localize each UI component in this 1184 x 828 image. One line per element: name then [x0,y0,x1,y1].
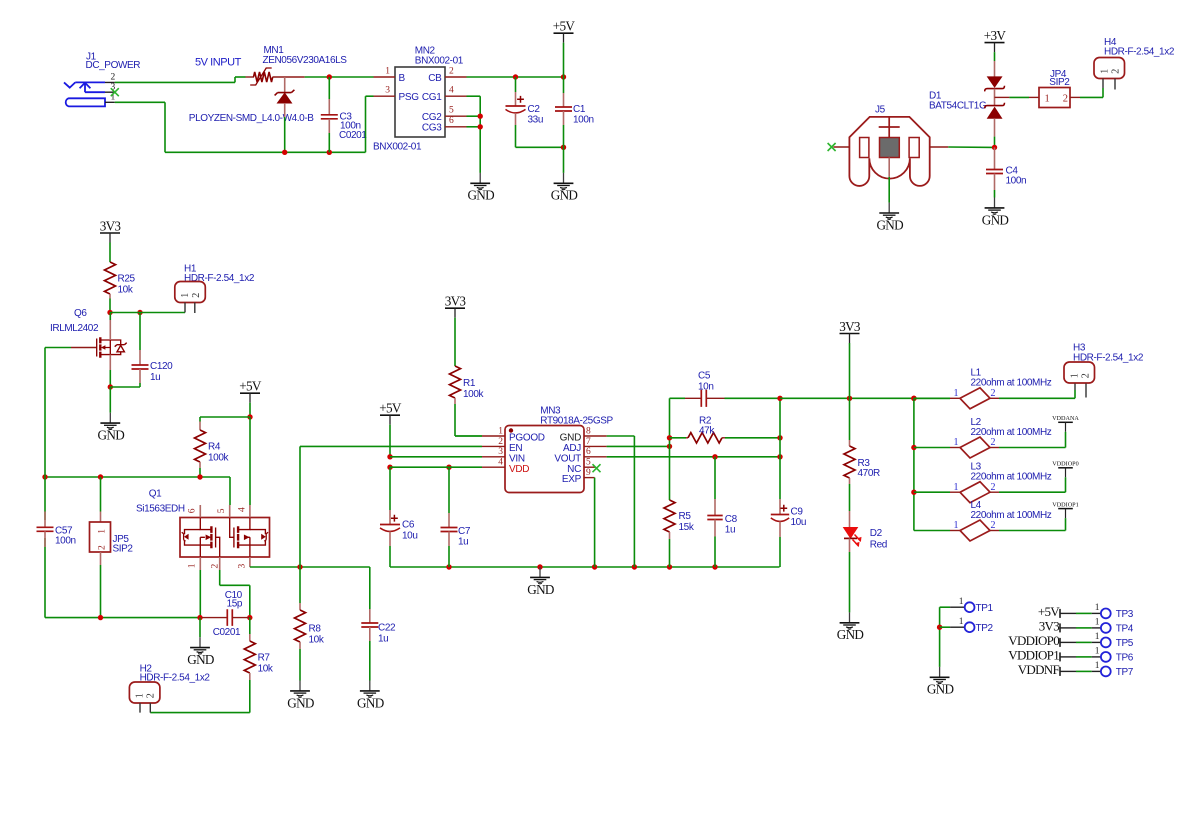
svg-text:2: 2 [991,482,996,493]
svg-text:9: 9 [586,468,591,478]
svg-text:VDD: VDD [509,464,529,475]
svg-text:4: 4 [498,458,503,468]
svg-text:1: 1 [135,693,146,698]
svg-text:GND: GND [467,188,494,203]
svg-text:+5V: +5V [1038,604,1060,619]
svg-text:33u: 33u [528,114,544,125]
svg-text:6: 6 [188,508,198,513]
svg-text:1: 1 [180,293,191,298]
svg-text:TP3: TP3 [1116,609,1134,620]
svg-text:10k: 10k [118,285,134,296]
svg-text:1: 1 [188,563,198,568]
svg-text:100k: 100k [208,452,229,463]
svg-text:2: 2 [1110,69,1121,74]
svg-text:TP1: TP1 [976,603,994,614]
svg-text:+5V: +5V [379,401,402,416]
svg-text:1: 1 [954,520,959,531]
svg-text:3: 3 [237,564,247,569]
svg-text:GND: GND [98,428,125,443]
svg-text:5: 5 [449,106,454,116]
svg-text:10k: 10k [309,635,325,646]
svg-text:GND: GND [527,582,554,597]
svg-text:PSG: PSG [399,92,420,103]
svg-text:5V INPUT: 5V INPUT [195,57,242,69]
svg-text:GND: GND [982,212,1009,227]
svg-text:R8: R8 [309,624,322,635]
svg-text:100n: 100n [1006,175,1027,186]
svg-text:2: 2 [449,66,454,76]
svg-text:Q1: Q1 [149,488,162,499]
svg-text:PGOOD: PGOOD [509,433,545,444]
svg-text:1: 1 [385,66,390,76]
svg-text:1: 1 [1095,618,1100,628]
svg-text:SIP2: SIP2 [113,543,134,554]
svg-text:CB: CB [428,73,442,84]
svg-text:BNX002-01: BNX002-01 [415,55,464,66]
svg-text:VDDIOP1: VDDIOP1 [1008,648,1059,663]
svg-text:TP6: TP6 [1116,653,1134,664]
svg-text:2: 2 [991,437,996,448]
svg-text:2: 2 [1063,93,1068,104]
svg-text:3V3: 3V3 [839,319,861,334]
svg-text:GND: GND [876,217,903,232]
svg-text:220ohm at 100MHz: 220ohm at 100MHz [971,427,1052,438]
svg-text:3V3: 3V3 [1039,619,1059,634]
svg-text:C5: C5 [698,370,711,381]
svg-text:1: 1 [954,388,959,399]
svg-text:CG2: CG2 [422,112,442,123]
svg-text:220ohm at 100MHz: 220ohm at 100MHz [971,510,1052,521]
svg-text:HDR-F-2.54_1x2: HDR-F-2.54_1x2 [1104,47,1175,58]
svg-text:2: 2 [991,520,996,531]
svg-text:1: 1 [97,529,107,534]
svg-text:TP5: TP5 [1116,638,1134,649]
svg-text:D2: D2 [870,528,883,539]
svg-text:1: 1 [954,482,959,493]
svg-text:1: 1 [498,426,503,436]
svg-text:1u: 1u [458,536,468,547]
svg-text:CG1: CG1 [422,92,442,103]
svg-text:C6: C6 [402,520,415,531]
svg-text:100n: 100n [55,536,76,547]
svg-text:100k: 100k [463,389,484,400]
svg-text:+5V: +5V [553,19,576,34]
svg-text:1: 1 [1095,647,1100,657]
svg-text:VDDANA: VDDANA [1052,415,1079,422]
svg-text:2: 2 [991,388,996,399]
svg-text:8: 8 [586,426,591,436]
svg-text:3V3: 3V3 [100,218,122,233]
svg-text:4: 4 [237,507,247,512]
svg-text:TP4: TP4 [1116,624,1134,635]
svg-text:1: 1 [954,437,959,448]
svg-text:SIP2: SIP2 [1049,77,1070,88]
svg-text:TP7: TP7 [1116,667,1134,678]
svg-text:3V3: 3V3 [445,294,467,309]
svg-text:220ohm at 100MHz: 220ohm at 100MHz [971,472,1052,483]
svg-text:BAT54CLT1G: BAT54CLT1G [929,101,987,112]
svg-text:2: 2 [498,437,503,447]
svg-text:R1: R1 [463,378,476,389]
svg-text:10n: 10n [698,381,714,392]
svg-text:470R: 470R [858,468,880,479]
svg-text:IRLML2402: IRLML2402 [50,323,99,334]
svg-text:5: 5 [586,458,591,468]
svg-text:15p: 15p [227,598,243,609]
svg-text:C7: C7 [458,526,471,537]
svg-text:3: 3 [385,86,390,96]
svg-text:J5: J5 [875,105,886,116]
svg-text:47k: 47k [699,426,715,437]
svg-text:6: 6 [449,116,454,126]
svg-text:1: 1 [1095,661,1100,671]
svg-text:2: 2 [111,73,116,83]
svg-text:GND: GND [560,433,581,444]
svg-text:VDDNF: VDDNF [1018,662,1060,677]
svg-text:R7: R7 [258,653,271,664]
svg-text:1u: 1u [725,525,735,536]
svg-text:R4: R4 [208,441,221,452]
svg-text:1u: 1u [378,634,388,645]
svg-text:C9: C9 [791,506,804,517]
svg-text:C0201: C0201 [213,627,241,638]
svg-text:GND: GND [187,652,214,667]
svg-text:4: 4 [449,86,454,96]
svg-text:1: 1 [1099,69,1110,74]
svg-text:GND: GND [287,695,314,710]
svg-text:Q6: Q6 [74,308,87,319]
svg-text:1: 1 [1045,93,1050,104]
svg-text:EN: EN [509,443,522,454]
svg-text:C120: C120 [150,361,173,372]
svg-text:GND: GND [357,695,384,710]
svg-text:VDDIOP1: VDDIOP1 [1052,501,1078,508]
svg-text:7: 7 [586,437,591,447]
svg-text:2: 2 [191,293,202,298]
svg-text:R5: R5 [679,511,692,522]
svg-text:10u: 10u [791,517,807,528]
svg-text:VDDIOP0: VDDIOP0 [1052,461,1078,468]
svg-text:BNX002-01: BNX002-01 [373,142,422,153]
svg-text:1: 1 [959,617,964,627]
svg-text:C8: C8 [725,514,738,525]
svg-text:1: 1 [1069,373,1080,378]
svg-text:+5V: +5V [239,379,262,394]
svg-text:2: 2 [97,545,107,550]
svg-text:GND: GND [837,627,864,642]
svg-text:VOUT: VOUT [554,453,581,464]
svg-text:6: 6 [586,447,591,457]
svg-text:CG3: CG3 [422,123,442,134]
svg-text:VIN: VIN [509,453,525,464]
svg-text:220ohm at 100MHz: 220ohm at 100MHz [971,378,1052,389]
svg-text:5: 5 [217,508,227,513]
svg-text:1: 1 [959,597,964,607]
svg-text:EXP: EXP [562,474,582,485]
svg-text:1: 1 [1095,603,1100,613]
svg-text:10u: 10u [402,530,418,541]
svg-text:GND: GND [927,682,954,697]
svg-text:Red: Red [870,540,887,551]
svg-text:B: B [399,73,406,84]
svg-text:C0201: C0201 [339,130,367,141]
svg-text:10k: 10k [258,664,274,675]
svg-text:VDDIOP0: VDDIOP0 [1008,633,1059,648]
svg-text:2: 2 [146,693,157,698]
svg-text:2: 2 [1080,373,1091,378]
svg-text:PLOYZEN-SMD_L4.0-W4.0-B: PLOYZEN-SMD_L4.0-W4.0-B [189,113,314,124]
svg-text:DC_POWER: DC_POWER [86,60,141,71]
svg-text:TP2: TP2 [976,623,994,634]
svg-text:100n: 100n [573,114,594,125]
svg-text:3: 3 [498,447,503,457]
svg-text:C22: C22 [378,623,396,634]
svg-text:15k: 15k [679,522,695,533]
svg-text:GND: GND [551,188,578,203]
svg-text:1u: 1u [150,372,160,383]
svg-text:R25: R25 [118,274,136,285]
svg-text:ADJ: ADJ [563,443,581,454]
svg-text:1: 1 [1095,632,1100,642]
svg-text:+3V: +3V [984,28,1007,43]
svg-text:Si1563EDH: Si1563EDH [136,503,185,514]
svg-text:ZEN056V230A16LS: ZEN056V230A16LS [263,55,348,66]
